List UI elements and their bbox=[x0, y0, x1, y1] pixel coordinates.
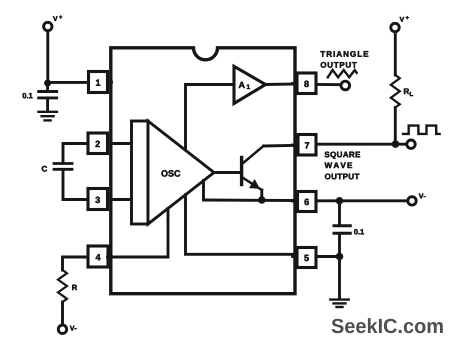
terminal V- right bbox=[408, 194, 426, 206]
wire pin 8 to triangle output terminal bbox=[316, 83, 341, 86]
op-amp A1 bbox=[234, 66, 266, 103]
oscillator block OSC (rectangle + triangle) bbox=[132, 121, 215, 224]
capacitor C (timing, left) bbox=[42, 144, 88, 200]
ground (right) bbox=[330, 300, 348, 307]
wire pin 6 to V- terminal bbox=[316, 199, 408, 202]
junction node pin6/cap bbox=[336, 197, 343, 204]
wire pin 5 to cap node bbox=[316, 255, 340, 258]
square wave symbol bbox=[403, 126, 440, 134]
wire node down to ground bbox=[338, 257, 341, 298]
wire emitter node to pin 6 bbox=[204, 199, 298, 202]
ground (left) bbox=[38, 112, 57, 121]
capacitor 0.1 (right) bbox=[334, 201, 364, 257]
terminal triangle output bbox=[341, 81, 350, 90]
junction emitter node bbox=[258, 197, 265, 204]
IC U1 body outline with pin-1 notch bbox=[111, 48, 295, 294]
pin 7 bbox=[293, 135, 316, 156]
wire pin 4 to OSC lower edge bbox=[108, 209, 169, 258]
pin 2 bbox=[88, 133, 112, 154]
junction node pin1 bbox=[44, 80, 50, 86]
wire pin2 to OSC bbox=[108, 142, 132, 145]
terminal V+ top-right bbox=[391, 16, 409, 32]
wire pin 7 to square output terminal bbox=[316, 143, 407, 146]
label SQUARE WAVE OUTPUT bbox=[325, 152, 361, 180]
wire pin3 to OSC bbox=[108, 198, 132, 201]
junction node pin5/cap bbox=[336, 253, 343, 260]
wire collector to pin 7 bbox=[264, 144, 298, 148]
terminal V+ top-left bbox=[44, 16, 63, 31]
wire OSC lower edge down to pin 5 bbox=[186, 195, 298, 255]
capacitor 0.1 (left bypass) bbox=[23, 83, 57, 111]
terminal square wave output bbox=[407, 140, 415, 148]
wire RL to pin7 node bbox=[394, 108, 397, 145]
pin 6 bbox=[293, 192, 316, 212]
transistor Q1 bbox=[242, 146, 264, 200]
terminal V- bottom-left bbox=[58, 325, 76, 333]
pin 1 bbox=[89, 72, 112, 93]
pin 3 bbox=[88, 189, 112, 210]
wire A1 output to pin 8 bbox=[266, 83, 298, 86]
pin 8 bbox=[293, 73, 316, 94]
wire V+ to RL bbox=[394, 32, 397, 75]
pin 5 bbox=[293, 248, 316, 268]
watermark SeekIC.com bbox=[332, 318, 443, 333]
wire stub emitter node to OSC lower edge bbox=[202, 181, 205, 201]
junction node square output bbox=[392, 141, 399, 148]
wire A1 input from OSC top edge bbox=[186, 85, 235, 150]
pin 4 bbox=[88, 246, 112, 267]
label TRIANGLE OUTPUT bbox=[320, 51, 368, 68]
wire V+ to pin1 node bbox=[46, 31, 49, 83]
triangle wave symbol bbox=[328, 70, 357, 77]
wire node to pin 1 bbox=[48, 81, 89, 84]
resistor R (bottom-left) bbox=[58, 257, 88, 325]
resistor RL bbox=[391, 75, 413, 108]
transistor Q1 base wire from OSC apex bbox=[214, 171, 240, 174]
